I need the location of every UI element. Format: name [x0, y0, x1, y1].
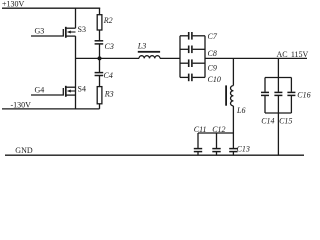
resistor R3	[97, 87, 102, 109]
inductor L3 label	[137, 42, 146, 51]
svg-text:G4: G4	[35, 85, 45, 94]
capacitor C13 label	[237, 144, 250, 153]
svg-text:R3: R3	[104, 90, 114, 99]
svg-text:R2: R2	[103, 16, 113, 25]
capacitor C14 label	[261, 117, 274, 126]
wire G3 gate lead	[31, 29, 63, 36]
wire GND rail	[5, 154, 304, 156]
wire L3 to bank	[160, 57, 180, 59]
node AC 115V label	[277, 50, 309, 59]
svg-text:GND: GND	[15, 146, 33, 155]
svg-text:C16: C16	[297, 91, 310, 100]
capacitor C16 label	[297, 91, 310, 100]
capacitor C7 label	[208, 32, 218, 41]
svg-text:L6: L6	[236, 106, 245, 115]
node +130V label	[2, 0, 25, 9]
capacitor C3 label	[105, 42, 114, 51]
wire C14-C16 top bus	[265, 77, 291, 79]
capacitor C10 label	[208, 75, 221, 84]
node junction dot at C3/C4	[98, 56, 102, 60]
svg-text:G3: G3	[35, 27, 45, 36]
capacitor C10	[180, 74, 205, 82]
inductor L3	[138, 51, 160, 59]
wire AC line from bank to right edge	[205, 57, 307, 59]
capacitor C4 label	[104, 71, 113, 80]
wire bank right rail	[204, 36, 206, 78]
wire L6 branch from AC line	[232, 58, 234, 85]
wire L6 to C13	[232, 106, 234, 148]
wire G4 gate lead	[31, 88, 63, 95]
capacitor C15 label	[279, 117, 292, 126]
wire S3 source / S4 drain rail	[75, 36, 77, 109]
capacitor C12 label	[212, 125, 225, 134]
capacitor C13	[229, 149, 237, 156]
inductor L6	[225, 85, 233, 106]
wire C14-C16 bottom bus	[265, 112, 291, 114]
capacitor C7	[180, 32, 205, 40]
svg-text:C15: C15	[279, 117, 292, 126]
capacitor C11 label	[194, 125, 207, 134]
node G3 label	[35, 27, 45, 36]
svg-text:S3: S3	[78, 25, 86, 34]
node GND label	[15, 146, 33, 155]
capacitor C3	[95, 41, 104, 59]
transistor S4	[66, 86, 76, 97]
svg-text:C12: C12	[212, 125, 225, 134]
resistor R2	[97, 8, 102, 40]
svg-text:L3: L3	[137, 42, 146, 51]
capacitor C15	[274, 78, 282, 114]
capacitor C9	[180, 59, 205, 67]
wire -130V rail	[2, 108, 100, 110]
inductor L6 label	[236, 106, 245, 115]
svg-text:+130V: +130V	[2, 0, 25, 9]
transistor S3 label	[78, 25, 86, 34]
node -130V label	[11, 101, 32, 110]
svg-text:AC 115V: AC 115V	[277, 50, 309, 59]
svg-text:C14: C14	[261, 117, 274, 126]
wire AC drop to C14-C16 bank	[277, 58, 279, 77]
wire mid rail from S3/S4 to filter bank	[76, 57, 140, 59]
capacitor C16	[287, 78, 295, 114]
svg-text:C3: C3	[105, 42, 114, 51]
resistor R3 label	[104, 90, 114, 99]
wire bank left rail	[179, 36, 181, 78]
svg-text:C10: C10	[208, 75, 221, 84]
wire C15 bank to GND	[277, 113, 279, 155]
capacitor C12	[212, 133, 220, 155]
svg-text:C4: C4	[104, 71, 113, 80]
wire bus for C11 C12	[198, 132, 233, 134]
svg-text:C11: C11	[194, 125, 207, 134]
svg-text:C13: C13	[237, 144, 250, 153]
wire +130V rail	[2, 7, 100, 9]
transistor S4 label	[78, 84, 86, 93]
capacitor C11	[194, 133, 202, 155]
svg-text:C9: C9	[208, 64, 217, 73]
capacitor C4	[95, 58, 104, 86]
resistor R2 label	[103, 16, 113, 25]
capacitor C8 label	[208, 49, 217, 58]
svg-text:S4: S4	[78, 84, 86, 93]
wire S3 drain to +130V rail	[75, 8, 77, 29]
capacitor C8	[180, 46, 205, 54]
capacitor C14	[261, 78, 269, 114]
node G4 label	[35, 85, 45, 94]
svg-text:C7: C7	[208, 32, 218, 41]
svg-text:C8: C8	[208, 49, 217, 58]
transistor S3	[66, 27, 76, 38]
capacitor C9 label	[208, 64, 217, 73]
